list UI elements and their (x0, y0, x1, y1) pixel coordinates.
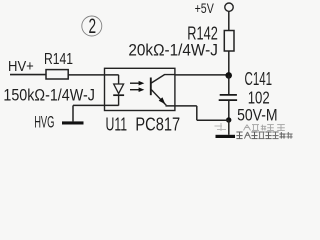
wire: R142 to junction (228, 51, 230, 76)
svg-text:U11: U11 (106, 114, 128, 135)
wire: LED cathode out left (73, 104, 119, 106)
watermark row 2 (236, 132, 292, 139)
svg-text:50V-M: 50V-M (237, 106, 278, 125)
wire: collector to junction (175, 74, 229, 76)
wire: emitter to bottom junction (197, 119, 229, 121)
wire: cathode down to HVG (72, 105, 74, 121)
ground (right, under C141) (216, 135, 236, 138)
svg-text:C141: C141 (245, 69, 273, 89)
wire: emitter down (196, 106, 198, 120)
wire: HV+ lead (10, 74, 46, 76)
svg-text:PC817: PC817 (135, 114, 180, 135)
optocoupler U11 box (105, 68, 175, 110)
svg-text:HV+: HV+ (8, 59, 34, 75)
wire: junction to C141 (228, 76, 230, 95)
svg-text:20kΩ-1/4W-J: 20kΩ-1/4W-J (128, 40, 218, 59)
svg-text:R141: R141 (44, 51, 73, 68)
light arrow 1 (130, 81, 144, 86)
resistor R142 (224, 31, 234, 52)
svg-text:2: 2 (89, 15, 97, 38)
circled number 2 (82, 15, 102, 38)
watermark row 1 (244, 125, 285, 131)
phototransistor Q inside optocoupler (151, 75, 175, 106)
terminal circle +5V (225, 3, 233, 11)
light arrow 2 (130, 87, 144, 92)
junction node dot (R142/C141/collector) (225, 72, 232, 79)
resistor R141 (46, 70, 68, 79)
svg-text:+5V: +5V (195, 0, 215, 16)
capacitor C141 (219, 95, 237, 100)
ground HVG (62, 121, 84, 124)
wire: C141 to bottom junction (228, 100, 230, 120)
svg-text:150kΩ-1/4W-J: 150kΩ-1/4W-J (3, 85, 95, 104)
wire: emitter out right (166, 105, 197, 107)
wire: R141 to LED anode (68, 74, 119, 76)
wire: +5V terminal to R142 (228, 11, 230, 30)
LED inside optocoupler (113, 75, 124, 106)
svg-text:HVG: HVG (34, 114, 54, 132)
junction node dot (emitter/C141/ground) (226, 117, 231, 122)
wire: junction to ground (228, 120, 230, 135)
watermark smudge near junction (215, 123, 227, 131)
